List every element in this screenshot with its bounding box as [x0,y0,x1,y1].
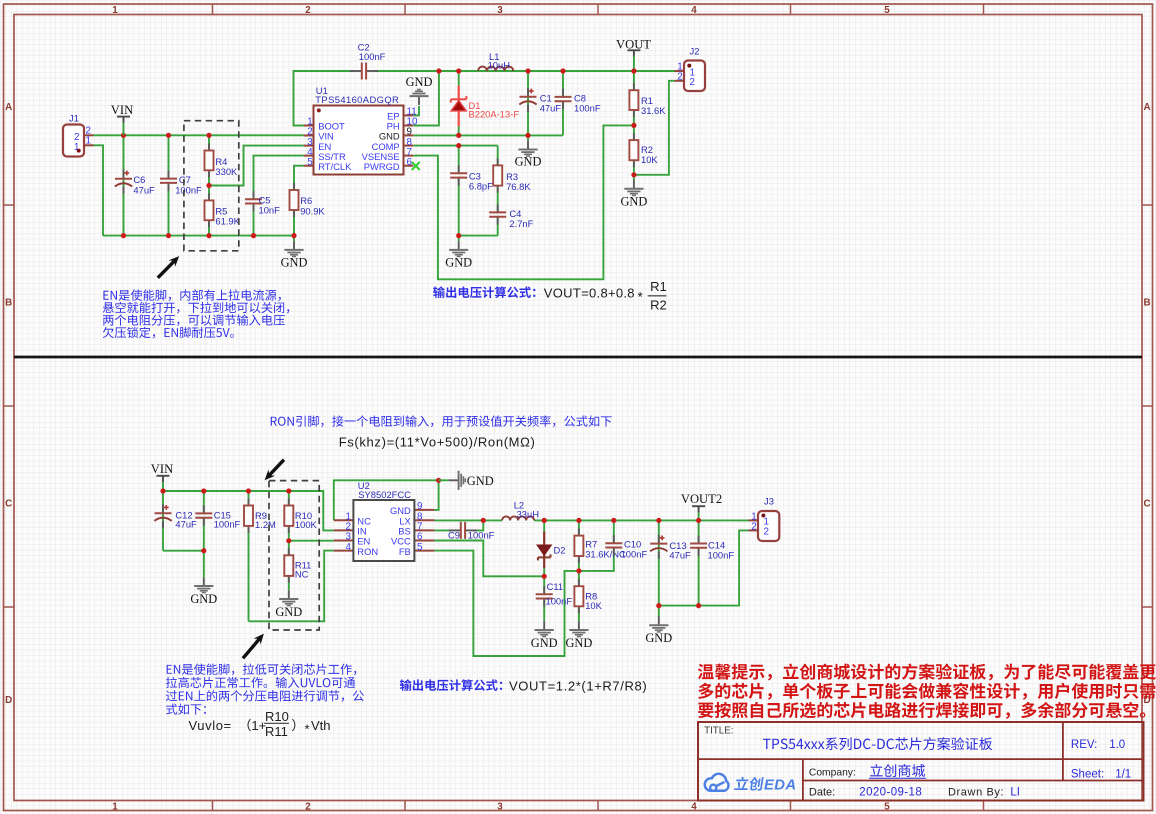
svg-text:10K: 10K [585,600,602,611]
junction VIN2 flag/C12 [160,488,165,493]
junction C13 bottom GND rail [656,603,661,608]
wire GND pin9 row [414,134,564,136]
svg-text:33uH: 33uH [517,509,539,520]
svg-text:GND: GND [565,636,592,650]
wire to GND flag right of U2 [439,479,449,481]
formula label (top): output voltage [433,286,535,298]
wire PH pin to top rail [414,71,439,126]
company name text [870,764,925,777]
wire R8 branch [578,571,580,621]
inductor L1 [478,51,513,71]
svg-text:5: 5 [417,542,423,553]
svg-text:B: B [1143,298,1150,309]
svg-text:2: 2 [764,527,769,538]
wire VOUT2 flag stub [698,512,700,520]
capacitor C12 (polarized) [154,504,197,530]
svg-text:TITLE:: TITLE: [704,726,733,737]
svg-text:1.0: 1.0 [1109,739,1125,751]
annotation EN note (bottom, blue) [166,663,364,714]
wire LX row after L2 [534,519,748,521]
svg-text:47uF: 47uF [540,103,562,114]
capacitor C9 [448,522,495,540]
svg-text:C: C [1143,499,1150,510]
svg-text:100K: 100K [295,519,318,530]
junction C9/LX [481,518,486,523]
svg-text:J2: J2 [690,45,700,56]
svg-text:61.9K: 61.9K [215,216,240,227]
junction rail R5 bottom [206,233,211,238]
ground flag GND under R11 [275,590,302,619]
capacitor C1 (polarized) [519,88,561,114]
svg-text:Date:: Date: [809,787,835,799]
section divider line [14,356,1142,359]
svg-text:100nF: 100nF [621,548,648,559]
svg-text:Company:: Company: [809,767,856,778]
svg-text:1+: 1+ [251,718,266,733]
resistor R1 [629,83,666,117]
svg-text:A: A [1143,102,1150,113]
svg-text:GND: GND [645,631,672,645]
svg-text:GND: GND [406,75,433,89]
wire EP to GND flag [414,106,420,116]
svg-text:C: C [5,499,12,510]
warning note (red) [698,663,1156,718]
svg-text:47uF: 47uF [175,519,197,530]
connector J1 [63,113,94,157]
wire R4-R5 branch [208,135,210,235]
svg-text:VOUT2: VOUT2 [681,492,722,506]
inductor L2 [502,500,539,521]
svg-text:1: 1 [112,5,118,16]
capacitor C3 [450,165,493,191]
wire R7 branch [578,520,580,571]
svg-text:10K: 10K [641,154,658,165]
wire C11 branch [543,576,545,621]
junction D1 top rail [456,68,461,73]
junction VIN/C6 [121,133,126,138]
capacitor C5 [245,191,280,215]
svg-text:VIN: VIN [111,103,133,117]
junction C15 top [201,488,206,493]
wire VIN rail (top) [94,134,304,136]
annotation arrow to bottom box (lower) [243,637,261,658]
ground flag GND under C11 [531,621,558,650]
svg-text:C11: C11 [547,581,564,592]
resistor R10 [284,499,317,533]
wire R3/C4 branch [497,146,499,236]
junction rail C7 bottom [166,233,171,238]
wire C13 GND stub [658,606,660,617]
svg-text:2.7nF: 2.7nF [509,218,533,229]
svg-text:LI: LI [1010,786,1020,798]
svg-text:*: * [305,721,310,736]
svg-text:GND: GND [445,256,472,270]
svg-text:1/1: 1/1 [1115,768,1131,780]
svg-text:EDA: EDA [764,777,796,793]
wire C7 branch [168,135,170,235]
junction C14 bottom GND rail [696,603,701,608]
svg-text:100nF: 100nF [214,519,241,530]
svg-text:Fs(khz)=(11*Vo+500)/Ron(MΩ): Fs(khz)=(11*Vo+500)/Ron(MΩ) [339,434,536,449]
junction D1 anode GND row [456,133,461,138]
svg-text:Sheet:: Sheet: [1071,768,1104,780]
svg-text:D: D [5,695,12,706]
junction R7/R8 FB tap [576,568,581,573]
svg-text:5: 5 [884,801,890,812]
resistor R9 [244,499,276,533]
diode D1 (Schottky B220A-13-F) [451,86,520,127]
svg-text:2: 2 [690,77,695,88]
IC U2 SY8502FCC [334,480,435,561]
svg-text:100nF: 100nF [468,529,495,540]
svg-text:100nF: 100nF [574,103,601,114]
net flag VIN (top) [111,103,133,123]
svg-text:GND: GND [190,592,217,606]
resistor R8 [574,579,602,613]
junction R4/R5 divider tap [206,183,211,188]
junction R1/R2 tap [631,123,636,128]
wire VCC loop [434,541,544,577]
wire R10 branch [288,491,290,555]
net flag VOUT [616,37,651,56]
junction rail C5 bottom [251,233,256,238]
wire BOOT to C2 rail [294,71,354,126]
wire C10 branch [579,520,614,571]
svg-text:9: 9 [417,501,422,512]
ground flag GND above U1 (EP) [406,75,433,105]
svg-text:4: 4 [345,542,351,553]
annotation arrow to EN divider box [158,260,176,278]
formula label (bottom): output voltage [400,679,502,691]
svg-text:GND: GND [620,194,647,208]
annotation RON note (blue) [271,415,612,427]
connector J2 [675,45,706,91]
svg-text:90.9K: 90.9K [300,205,325,216]
svg-text:100nF: 100nF [546,596,573,607]
wire R2 branch [633,125,635,174]
svg-text:47uF: 47uF [133,184,155,195]
wire NC pin1 to GND net [334,480,439,520]
capacitor C13 (polarized) [650,535,691,561]
svg-text:2020-09-18: 2020-09-18 [859,787,922,799]
junction C13 top LX row [656,518,661,523]
wire R9 branch [248,491,250,621]
wire C13 branch [658,520,660,605]
annotation EN note (top, blue) [103,289,290,338]
junction C7 top [166,133,171,138]
capacitor C10 [605,535,647,559]
svg-text:330K: 330K [215,166,238,177]
wire COMP row to C3/R3 [414,145,498,147]
svg-text:J3: J3 [764,496,774,507]
wire RT/CLK to R6 [294,166,304,236]
svg-text:100nF: 100nF [359,51,386,62]
junction R9 top [246,488,251,493]
capacitor C4 [489,204,533,229]
junction PH vertical/top rail [436,68,441,73]
title text [763,737,992,750]
junction C1 top rail [525,68,530,73]
svg-text:PWRGD: PWRGD [364,161,400,172]
svg-text:GND: GND [281,256,308,270]
svg-text:VOUT: VOUT [616,37,651,51]
title block [698,722,1144,801]
dashed highlight box (EN divider, bottom) [269,481,319,630]
svg-text:R2: R2 [650,297,667,312]
junction C12/C15 bottom [201,548,206,553]
wire VIN flag stub (top) [123,123,125,136]
diode D2 (Schottky) [537,532,565,569]
junction R10/R11 EN tap [286,538,291,543]
wire EN link from divider [209,146,304,186]
capacitor C15 [195,505,240,529]
svg-text:6.8pF: 6.8pF [469,181,493,192]
junction R4 top [206,133,211,138]
svg-text:Drawn By:: Drawn By: [948,787,1004,799]
wire FB loop [434,551,579,656]
svg-text:GND: GND [515,155,542,169]
wire GND rail stub under R6 [293,236,295,242]
junction R10 top [286,488,291,493]
capacitor C2 [350,41,386,79]
junction C3 bottom [456,233,461,238]
wire D2 branch bottom [543,568,545,576]
wire LX row [434,519,502,521]
ground flag GND under C15 [190,577,217,606]
wire SS/TR to C5 [254,156,304,236]
wire GND stub under C3 [458,236,460,242]
ground flag GND under bottom rail (R6) [281,241,308,270]
wire VSENSE feedback loop [414,125,634,279]
svg-text:*: * [638,289,644,304]
resistor R3 [493,158,531,192]
wire C15 branch [203,491,205,551]
svg-text:31.6K: 31.6K [641,105,666,116]
capacitor C8 [555,89,601,114]
net flag VOUT2 [681,492,722,512]
junction NC/GND flag [436,478,441,483]
svg-text:2: 2 [751,521,756,532]
junction C1 bottom GND row [525,133,530,138]
connector J3 [749,496,780,541]
svg-text:C9: C9 [448,529,460,540]
wire C1 branch [527,71,529,135]
no-connect X on U1 pin6 PWRGD [412,162,420,170]
wire J1 pin1 to bottom rail [94,145,104,235]
dashed highlight box (EN divider, top) [184,121,239,251]
wire C2 right to PH rail [374,70,674,72]
wire C14 branch [698,520,700,605]
resistor R11 [284,548,311,583]
junction rail C6 bottom [121,233,126,238]
svg-text:VOUT=1.2*(1+R7/R8): VOUT=1.2*(1+R7/R8) [509,678,647,693]
wire D2 branch top [543,520,545,531]
svg-text:10nF: 10nF [259,205,281,216]
svg-text:R11: R11 [265,724,288,739]
junction C8 top rail [560,68,565,73]
wire C9 to LX [473,520,483,530]
wire C8 branch [562,71,564,135]
wire R11 to GND flag [288,576,290,590]
formula Vuvlo [189,709,331,739]
ground flag GND under C13 [645,617,672,646]
wire C15 GND stub [203,551,205,578]
junction VOUT/R1 top rail [631,68,636,73]
wire R1 branch [633,71,635,125]
svg-text:1: 1 [86,135,91,146]
svg-text:REV:: REV: [1071,739,1097,751]
svg-text:Vth: Vth [311,718,331,733]
svg-text:GND: GND [275,605,302,619]
svg-text:FB: FB [399,546,411,557]
svg-text:TPS54160ADGQR: TPS54160ADGQR [315,94,399,105]
svg-text:B220A-13-F: B220A-13-F [469,109,520,120]
wire GND pin9 up [434,480,438,510]
svg-text:VOUT=0.8+0.8: VOUT=0.8+0.8 [544,286,635,301]
svg-text:SY8502FCC: SY8502FCC [358,489,411,500]
svg-text:1.2M: 1.2M [255,519,276,530]
formula VOUT=0.8+0.8*R1/R2 [544,279,667,312]
wire R10/R11 to EN pin [289,540,334,542]
svg-text:3: 3 [497,801,503,812]
junction C10 top LX row [611,518,616,523]
capacitor C7 [160,171,202,196]
svg-text:5: 5 [884,5,890,16]
svg-text:B: B [5,298,12,309]
wire bottom GND rail (bottom circuit) [659,530,749,605]
svg-text:R10: R10 [265,709,289,724]
EasyEDA logo [705,774,797,793]
svg-text:NC: NC [295,568,309,579]
svg-text:RT/CLK: RT/CLK [318,161,352,172]
ground flag GND under R8 [565,621,592,650]
wire C6 branch [123,135,125,235]
svg-text:Vuvlo=: Vuvlo= [189,718,232,733]
wire C12 branch [162,491,164,551]
resistor R7 [574,529,626,563]
capacitor C6 (polarized) [115,170,155,196]
wire C3 branch [458,146,460,236]
svg-text:100nF: 100nF [175,184,202,195]
svg-text:76.8K: 76.8K [506,181,531,192]
wire D1 branch top [458,71,460,86]
capacitor C11 [536,581,573,606]
ground flag GND under C3/C4 [445,241,472,270]
svg-text:J1: J1 [69,113,79,124]
svg-text:10uH: 10uH [488,59,510,70]
svg-text:GND: GND [531,636,558,650]
wire GND stub under C1/C8 [527,135,529,140]
junction VCC/D2/C11 node [542,574,547,579]
ground flag GND under R2 [620,180,647,208]
junction VOUT2/C14 LX row [696,518,701,523]
junction D2 top LX row [542,518,547,523]
svg-text:2: 2 [305,5,311,16]
wire VOUT flag stub [633,57,635,72]
junction R7 top LX row [576,518,581,523]
wire D1 branch bottom [458,126,460,135]
resistor R4 [205,144,239,178]
annotation arrow to bottom box (upper) [268,460,284,477]
svg-text:VIN: VIN [151,462,173,476]
wire R2 to GND [633,175,635,180]
junction COMP/C3 [456,143,461,148]
resistor R2 [629,133,658,167]
junction rail R6/GND [291,233,296,238]
resistor R5 [205,193,241,227]
svg-text:47uF: 47uF [669,549,691,560]
resistor R6 [290,183,326,217]
wire bottom GND rail (top circuit) [103,235,294,237]
svg-text:5: 5 [307,157,313,168]
svg-text:GND: GND [390,505,411,516]
IC U1 TPS54160ADGQR [304,85,418,174]
svg-text:A: A [5,102,12,113]
svg-text:3: 3 [497,5,503,16]
wire J2 pin2 link [634,81,675,175]
svg-text:R1: R1 [650,279,667,294]
ground flag GND right of U2 [449,471,494,490]
svg-text:4: 4 [691,5,697,16]
wire C3/C4 bottom link [459,235,498,237]
svg-text:GND: GND [467,474,494,488]
net flag VIN (bottom) [151,462,173,482]
wire C12/C15 bottom link [163,550,204,552]
svg-text:2: 2 [305,801,311,812]
svg-text:RON: RON [357,546,378,557]
svg-text:D2: D2 [554,544,566,555]
wire VIN rail (bottom) [163,482,334,530]
svg-text:100nF: 100nF [708,549,735,560]
wire RON loop [249,551,334,622]
svg-text:2: 2 [677,71,682,82]
ground flag GND under C1/C8 [515,141,542,169]
junction R2 bottom/J2 pin2 [631,172,636,177]
wire BS to C9 [434,529,452,531]
svg-text:4: 4 [691,801,697,812]
svg-text:1: 1 [112,801,118,812]
capacitor C14 [690,536,734,561]
